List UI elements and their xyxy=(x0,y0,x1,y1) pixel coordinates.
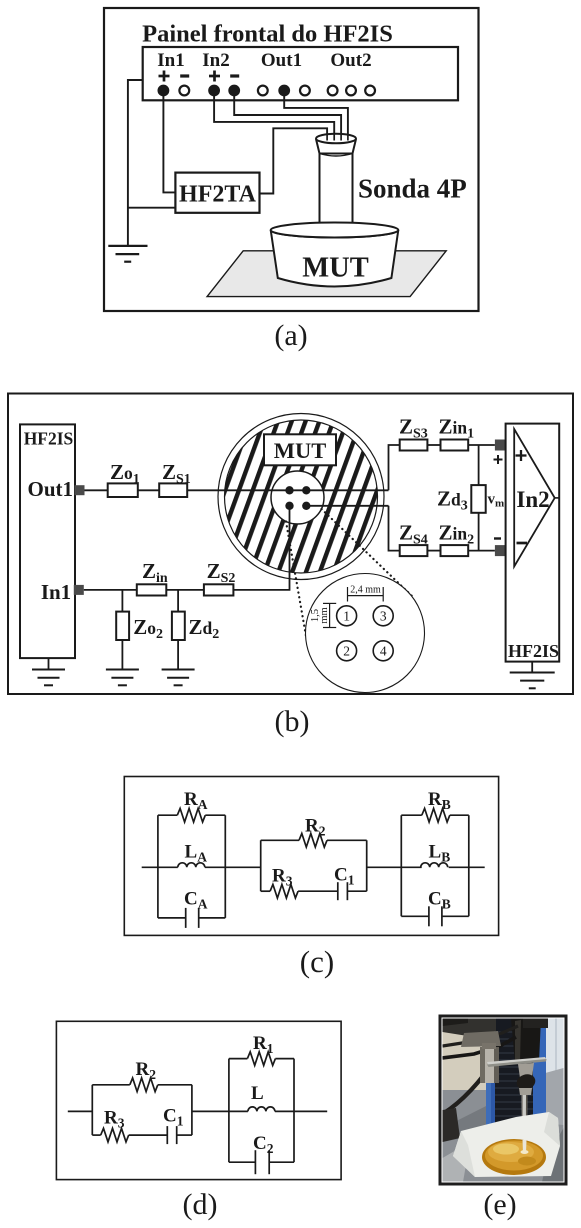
capacitor CB xyxy=(401,906,469,926)
photo white tissue xyxy=(453,1112,560,1177)
minus sign outer xyxy=(494,537,501,539)
block D1 right rail xyxy=(191,1085,193,1135)
wire ZS3 row segments xyxy=(427,444,440,446)
wire electrode4 to right jog xyxy=(306,505,388,507)
block D2 left rail xyxy=(228,1059,230,1163)
panel (b) outer frame box xyxy=(8,394,573,695)
svg-text:4: 4 xyxy=(380,644,387,659)
resistor RB xyxy=(401,808,469,822)
connector In1+ filled xyxy=(158,85,170,97)
photo aluminum plate xyxy=(487,1057,547,1066)
svg-text:Out2: Out2 xyxy=(330,50,371,71)
svg-text:2: 2 xyxy=(343,644,350,659)
HF2IS right instrument box xyxy=(506,424,560,662)
capacitor C2 (d) xyxy=(229,1150,294,1174)
resistor R1 (d) xyxy=(229,1052,294,1066)
connector Out1 filled xyxy=(278,85,290,97)
panel (d) outer frame box xyxy=(56,1021,341,1179)
plus sign In2 xyxy=(209,71,220,82)
photo rod tip in honey xyxy=(523,1140,527,1153)
impedance Zin1 xyxy=(441,440,469,451)
svg-text:1: 1 xyxy=(343,609,350,624)
plus sign outer xyxy=(494,455,503,464)
electrode dot 1 xyxy=(285,486,293,494)
svg-text:(c): (c) xyxy=(300,944,334,979)
In2 amplifier triangle xyxy=(514,429,559,566)
photo blue column xyxy=(486,1019,546,1127)
dotted callout line left xyxy=(286,522,306,637)
connector In2- filled xyxy=(228,85,240,97)
wire HF2TA output to probe pin0 xyxy=(260,128,328,193)
pad plus In2 xyxy=(495,440,506,451)
impedance ZS2 xyxy=(204,584,234,595)
photo right pale wall xyxy=(538,1019,564,1091)
wire Zo2 to ground xyxy=(121,640,123,670)
HF2IS left instrument box xyxy=(20,424,75,658)
svg-text:(d): (d) xyxy=(183,1188,218,1221)
inset electrode 1 xyxy=(337,606,357,626)
svg-text:HF2IS: HF2IS xyxy=(24,429,74,449)
wire main line (c) left stub xyxy=(142,866,178,868)
photo probe connector xyxy=(518,1063,534,1078)
inset electrode 4 xyxy=(373,641,393,661)
ground Zo2 xyxy=(106,670,139,686)
MUT label box xyxy=(264,434,336,465)
HF2TA amplifier box xyxy=(175,173,259,213)
block B left rail xyxy=(260,840,262,891)
electrode dot 3 xyxy=(302,486,310,494)
photo machine head top-left xyxy=(443,1019,497,1038)
block D2 right rail xyxy=(293,1059,295,1163)
ground Zd2 xyxy=(162,670,195,686)
impedance ZS1 xyxy=(159,483,187,497)
dotted callout line right xyxy=(322,509,414,597)
svg-text:(e): (e) xyxy=(483,1188,516,1221)
photo black motor xyxy=(511,1019,541,1064)
svg-text:MUT: MUT xyxy=(274,438,327,463)
resistor R2 (c) xyxy=(261,834,367,848)
minus sign inner xyxy=(517,542,528,545)
svg-text:Sonda 4P: Sonda 4P xyxy=(358,174,467,204)
wire Out1 row xyxy=(85,489,389,491)
photo (e) frame xyxy=(440,1016,566,1184)
MUT sample hatched circle xyxy=(225,420,378,573)
svg-text:Painel frontal do HF2IS: Painel frontal do HF2IS xyxy=(142,21,393,48)
wire In1 row xyxy=(84,589,137,591)
svg-text:In1: In1 xyxy=(157,50,184,71)
photo silver cylinder xyxy=(480,1047,499,1083)
wire main line (c) B-to-C xyxy=(367,866,422,868)
wire main line (d) mid xyxy=(192,1110,248,1112)
MUT bowl rim xyxy=(271,223,399,238)
impedance Zin xyxy=(137,584,167,595)
svg-text:HF2IS: HF2IS xyxy=(508,641,559,661)
block C right rail xyxy=(468,815,470,916)
block C left rail xyxy=(400,815,402,916)
impedance Zo1 xyxy=(108,483,138,497)
photo head bracket xyxy=(461,1031,501,1047)
magnifier inset circle xyxy=(306,574,425,693)
wire Out1 to probe pin3 xyxy=(284,96,348,138)
minus sign In2 xyxy=(230,74,239,77)
wire HF2IS right to ground xyxy=(531,662,533,673)
probe cap xyxy=(316,134,356,156)
wire In1+ to HF2TA xyxy=(163,96,175,193)
pad minus In2 xyxy=(495,545,506,556)
svg-text:Out1: Out1 xyxy=(28,477,74,501)
wire main line (c) A-to-B xyxy=(205,866,261,868)
svg-text:(b): (b) xyxy=(275,705,310,738)
wire HF2IS left to ground xyxy=(48,658,50,669)
connector In2+ filled xyxy=(208,85,220,97)
platform under MUT xyxy=(207,251,446,297)
probe pin stubs xyxy=(327,134,348,141)
svg-text:2,4 mm: 2,4 mm xyxy=(350,585,381,596)
resistor RA xyxy=(158,808,225,822)
dimension 2,4 mm xyxy=(348,585,384,602)
impedance Zo2 xyxy=(116,612,129,640)
wire Zo2 branch xyxy=(121,590,123,612)
photo cables xyxy=(443,1026,519,1046)
wire jog up to ZS3 row xyxy=(389,445,400,490)
connector Out1 open left xyxy=(258,86,268,96)
electrode dot 4 xyxy=(302,502,310,510)
wire Zin1 to pad plus xyxy=(468,444,495,446)
wire electrode2 down to In1 row xyxy=(233,506,289,590)
ground symbol (a) xyxy=(108,246,147,262)
connector Out2 open 1 xyxy=(328,86,338,96)
wire main line (d) right stub xyxy=(275,1110,327,1112)
block A left rail xyxy=(157,815,159,918)
wire In2+ to probe pin1 xyxy=(214,96,334,138)
connector Out2 open 3 xyxy=(365,86,375,96)
panel (c) outer frame box xyxy=(124,777,498,936)
connector In1- open xyxy=(179,86,189,96)
inductor L (d) xyxy=(248,1107,275,1112)
svg-text:3: 3 xyxy=(380,609,387,624)
resistor R3 (d) xyxy=(92,1128,167,1142)
plus sign inner xyxy=(516,450,527,461)
wire Zin to ZS2 xyxy=(166,589,204,591)
photo honey sample xyxy=(482,1139,546,1175)
photo probe rod xyxy=(522,1095,528,1150)
pad In1 xyxy=(74,585,84,595)
impedance ZS3 xyxy=(400,440,428,451)
svg-text:mm: mm xyxy=(319,607,330,623)
block A right rail xyxy=(224,815,226,918)
svg-text:MUT: MUT xyxy=(302,253,369,284)
capacitor CA xyxy=(158,908,225,928)
wire main line (c) right stub xyxy=(449,866,485,868)
svg-text:(a): (a) xyxy=(274,319,307,352)
photo dark slot xyxy=(495,1019,533,1127)
impedance Zd2 xyxy=(172,612,185,640)
wire ZS4 row segments xyxy=(427,550,440,552)
svg-text:HF2TA: HF2TA xyxy=(179,182,257,208)
wire Zin2 to pad minus xyxy=(468,550,495,552)
ground HF2IS right xyxy=(510,673,555,689)
wire jog down to ZS4 row xyxy=(389,506,400,551)
capacitor C1 (d) xyxy=(167,1126,192,1144)
wire Zd2 branch xyxy=(177,590,179,612)
capacitor C1 (c) xyxy=(338,882,367,900)
MUT sample outer circle xyxy=(218,414,384,580)
wire Zd2 to ground xyxy=(177,640,179,670)
MUT bowl body xyxy=(271,230,399,287)
wire In2- to probe pin2 xyxy=(234,96,341,138)
svg-text:In2: In2 xyxy=(202,50,229,71)
svg-text:L: L xyxy=(251,1083,264,1104)
inductor LB xyxy=(421,863,448,868)
inset electrode 2 xyxy=(337,641,357,661)
wire main line (d) left stub xyxy=(68,1110,93,1112)
inset electrode 3 xyxy=(373,606,393,626)
resistor R3 (c) xyxy=(261,884,338,898)
svg-text:In1: In1 xyxy=(41,580,71,604)
photo grey floor xyxy=(443,1090,564,1182)
impedance Zd3 xyxy=(471,485,485,513)
minus sign In1 xyxy=(180,74,189,77)
block D1 left rail xyxy=(91,1085,93,1135)
wire ground rail to HF2TA xyxy=(128,207,175,209)
wire panel-left stub to ground rail xyxy=(128,80,143,246)
front panel connector box xyxy=(143,47,458,100)
svg-text:In2: In2 xyxy=(516,487,549,512)
impedance Zin2 xyxy=(441,545,469,556)
dimension 1,5 mm xyxy=(310,603,336,627)
photo beige wall xyxy=(443,1019,564,1182)
connector Out1 open right xyxy=(300,86,310,96)
resistor R2 (d) xyxy=(92,1078,192,1092)
connector Out2 open 2 xyxy=(346,86,356,96)
inductor LA xyxy=(178,863,205,868)
pad Out1 xyxy=(75,485,85,495)
panel (a) outer frame box xyxy=(104,8,479,311)
block B right rail xyxy=(366,840,368,891)
impedance ZS4 xyxy=(400,545,428,556)
ground HF2IS left xyxy=(32,670,65,686)
svg-text:Out1: Out1 xyxy=(261,50,302,71)
wire Vm vertical xyxy=(478,445,480,551)
electrode dot 2 xyxy=(285,502,293,510)
plus sign In1 xyxy=(159,71,170,82)
probe cylinder body xyxy=(320,154,353,229)
electrode head circle xyxy=(271,471,324,524)
